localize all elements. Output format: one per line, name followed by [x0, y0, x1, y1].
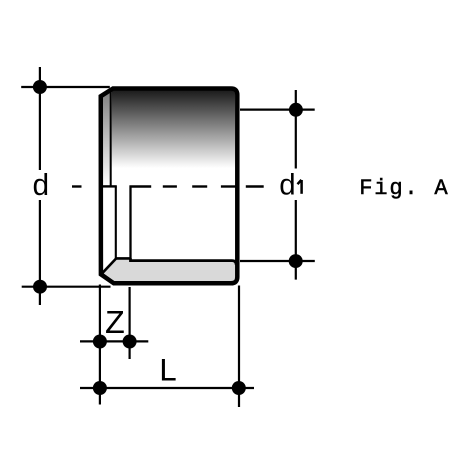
svg-text:L: L [158, 354, 178, 391]
socket body outline [101, 89, 238, 284]
dimension d top extension [21, 86, 110, 88]
Z right extension line [129, 287, 131, 359]
band bore step edge [131, 258, 237, 265]
centerline dashes [72, 185, 264, 187]
svg-text:d: d [279, 170, 297, 204]
svg-text:Fig. A: Fig. A [359, 176, 449, 201]
dimension dot Z right [123, 335, 137, 349]
Z/L left extension line [99, 285, 101, 405]
dimension d bottom extension [22, 286, 111, 288]
dimension d1 top extension [240, 108, 315, 110]
dimension L horizontal line [80, 387, 254, 389]
L right extension line [238, 286, 240, 408]
dimension dot d1 top [289, 103, 303, 117]
svg-text:Z: Z [105, 306, 125, 344]
dimension d1 bottom extension [240, 260, 315, 262]
label d1 subscript 1 [298, 180, 302, 194]
socket body white base [101, 89, 238, 284]
svg-text:d: d [32, 171, 50, 205]
dimension dot Z left [93, 335, 107, 349]
chamfer strip shading [101, 89, 111, 186]
socket inner wall line [115, 186, 117, 258]
socket mouth crossbar [103, 185, 117, 187]
dimension dot d bottom [33, 280, 47, 294]
dimension d1 vertical line [295, 90, 297, 169]
band chamfer slant edge [101, 258, 131, 274]
socket bottom wall section band fill [101, 258, 237, 283]
band bottom slant edge [101, 274, 114, 283]
dimension dot L right [232, 381, 246, 395]
dimension Z horizontal line [80, 340, 148, 342]
dimension dot d top [33, 80, 47, 94]
chamfer strip inner edge [110, 89, 112, 187]
dimension dot L left [93, 381, 107, 395]
dimension d vertical line [39, 67, 41, 170]
bore edge line [129, 186, 131, 260]
socket shaded surface gradient [112, 89, 235, 187]
dimension dot d1 bottom [289, 254, 303, 268]
